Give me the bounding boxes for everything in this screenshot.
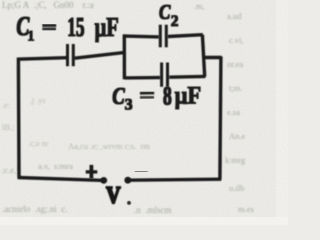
equals sign of C3 label [140,93,154,97]
svg-text:8: 8 [163,81,172,111]
wire bottom left to battery [18,178,104,181]
svg-text:V: V [106,182,121,209]
wire top-left segment and left rail [18,58,66,178]
svg-text:15: 15 [67,12,84,42]
wire parallel-box left edge [123,35,126,80]
svg-text:C: C [112,83,125,110]
node battery positive terminal [100,177,107,184]
wire battery to bottom right [128,179,222,180]
svg-text:μF: μF [95,13,119,42]
capacitor C3 [162,63,168,87]
value label C3 = 8 uF [112,81,201,114]
capacitor C1 [68,44,74,66]
svg-text:1: 1 [27,28,34,44]
wire parallel-box top edge [123,35,203,37]
wire C1 to parallel box [75,52,126,58]
period after V [127,201,131,205]
label V (source) [106,182,121,209]
svg-text:3: 3 [125,97,133,114]
svg-text:μF: μF [175,83,202,110]
svg-text:2: 2 [171,13,179,30]
label C2 [159,1,179,30]
wire parallel-box bottom edge [124,76,205,78]
svg-text:C: C [159,1,171,24]
equals sign of C1 label [42,26,56,30]
wire right rail [220,56,221,179]
capacitor C2 [160,25,166,48]
node battery negative terminal [124,177,131,184]
wire stub from box to right rail [204,56,222,59]
wire parallel-box right edge [202,35,204,77]
minus polarity mark of source V [135,169,148,173]
plus polarity mark of source V [86,165,98,179]
value label C1 = 15 uF [16,12,118,44]
